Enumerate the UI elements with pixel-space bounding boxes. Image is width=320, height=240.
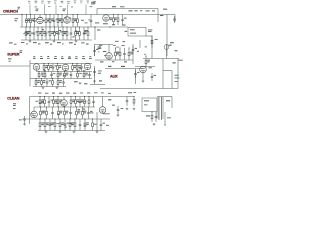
label band1 row1 extra 6 <box>25 19 28 22</box>
label V7 right b <box>112 104 115 107</box>
label band2 top 8 <box>89 57 92 60</box>
capacitor C39 <box>151 73 154 81</box>
ground band3 left <box>23 123 26 125</box>
resistor b3r3R6 <box>69 118 71 130</box>
wire wire V6A top <box>33 107 35 111</box>
label band1 bottom 5 <box>69 42 73 43</box>
label resistor b3r1aR4 <box>59 99 62 102</box>
label band2 row1 extra 4 <box>63 74 66 77</box>
label capacitor b1r2aC5 <box>48 30 50 33</box>
label PT a <box>128 91 132 94</box>
label send a <box>175 74 179 77</box>
label row2 right a <box>97 28 100 31</box>
label resistor b1r1bR4 <box>58 18 61 21</box>
label resistor b1r2aR3 <box>39 31 42 34</box>
resistor b2r2R6 <box>77 71 79 79</box>
label send c <box>175 80 178 83</box>
ground band2 b <box>56 87 59 89</box>
wire wire x135.5 drop <box>135 69 137 85</box>
label resistor b2r2R1 <box>41 73 44 76</box>
label resistor b3r2R3 <box>60 111 63 114</box>
label band1 bottom 0 <box>9 41 13 44</box>
label resistor b1r2aR6 <box>51 31 54 34</box>
node bus y27 x95 <box>94 26 95 27</box>
capacitor C67 <box>23 116 26 123</box>
resistor b3r1aR0 <box>39 96 41 107</box>
label band3 row2 extra 6 <box>57 113 60 116</box>
label band1 bottom2 3 <box>50 43 52 46</box>
label band3 top 2 <box>52 93 55 94</box>
label band1 row1 extra 8 <box>64 17 67 20</box>
label band1 row2 extra 3 <box>31 32 33 35</box>
capacitor b2r1aC2 <box>52 64 55 72</box>
resistor b1r1bR1 <box>49 14 51 27</box>
label band1 top value 6 <box>67 0 70 3</box>
label band1 top ref 3 <box>48 2 50 5</box>
wire wire x30 vertical band2 <box>29 60 31 87</box>
svg-text:CRUNCH: CRUNCH <box>3 10 18 14</box>
wire wire x178 drop <box>177 59 179 89</box>
resistor b1r2aR10 <box>66 26 68 40</box>
tube V1A triode <box>37 17 44 24</box>
label band1 row1 extra 7 <box>28 19 30 22</box>
label capacitor C38 <box>137 71 139 74</box>
capacitor C71 <box>100 119 103 131</box>
label rail up1 <box>112 6 116 7</box>
label spk <box>167 116 171 119</box>
label band2 top2 4 <box>61 55 63 58</box>
wire bus band1 y40 <box>21 39 92 41</box>
label resistor b2r2R4 <box>66 73 69 76</box>
wire wire x166b <box>166 44 168 59</box>
tube V7 output <box>99 107 106 114</box>
label band2 low a <box>74 81 78 82</box>
wire rail band3 y119 <box>22 118 110 120</box>
wire wire x95 drop <box>94 45 96 57</box>
label input B3 c <box>13 107 16 110</box>
label resistor b3r3R0 <box>41 122 44 125</box>
tube V4B triode <box>106 53 113 60</box>
ground band2 a <box>42 87 45 89</box>
label b2rt d1 <box>100 61 103 62</box>
wire bus band2 y71.5 <box>36 71 92 73</box>
label resistor b2r2R3 <box>59 73 62 76</box>
resistor b1r2aR12 <box>75 26 77 40</box>
label resistor b2r1aR3 <box>59 65 62 68</box>
label band2 top 7 <box>82 57 85 60</box>
resistor b1r2aR0 <box>25 26 27 40</box>
label band1 bottom2 4 <box>62 43 64 46</box>
wire rail band3 y107 <box>34 106 95 108</box>
label band1 row2 extra 9 <box>85 29 88 32</box>
wire bus band2 y78.5 <box>30 78 92 80</box>
ground band3 g3 <box>73 131 76 133</box>
label resistor b1r2aR12 <box>77 31 80 34</box>
label capacitor b3r3C2 <box>52 122 54 125</box>
capacitor b1r2aC5 <box>45 27 48 40</box>
label resistor b1toneR1 <box>114 17 117 20</box>
label resistor b3r2R7 <box>84 111 87 114</box>
label C5 <box>163 8 167 11</box>
resistor b3r2R6 <box>76 106 78 119</box>
capacitor b3r1bC5 <box>92 97 95 108</box>
label resistor b3r1bR3 <box>81 99 84 102</box>
wire wire x158 drop <box>157 9 159 23</box>
wire wire V5A down <box>142 73 144 80</box>
resistor b3r1bR4 <box>88 96 90 107</box>
capacitor b3r3C5 <box>64 119 67 131</box>
label resistor b3r1aR3 <box>55 99 58 102</box>
resistor b1r2aR4 <box>41 26 43 40</box>
label resistor b1r2aR9 <box>64 31 67 34</box>
ground band1 g1 <box>29 40 32 42</box>
wire wire x172 drop band3 <box>171 97 173 109</box>
resistor b3r3R9 <box>84 118 86 130</box>
resistor b1toneR0 <box>113 14 115 25</box>
label band1 row1 extra 4 <box>47 20 49 23</box>
label band3 row2 extra 4 <box>82 110 85 113</box>
label capacitor b2r1aC2 <box>55 64 57 67</box>
label capacitor b1r2aC8 <box>60 30 62 33</box>
wire input wire band2 y66 <box>0 65 30 67</box>
capacitor C5 bright <box>173 16 176 23</box>
label band2 row1 extra 2 <box>79 67 81 70</box>
label band3 row3 extra 6 <box>69 122 72 125</box>
label band1 bottom 4 <box>57 42 61 43</box>
label band3 row3 extra 4 <box>49 122 51 125</box>
resistor b1r2aR7 <box>54 26 56 40</box>
wire supply stub band1 2 <box>55 5 57 15</box>
label x178 a <box>179 59 183 62</box>
label input B2 <box>20 50 23 53</box>
label band2 top 2 <box>47 57 50 60</box>
label band2 right extra 0 <box>104 54 107 57</box>
label band3 row1 extra 1 <box>55 102 58 105</box>
label band1 top value 9 <box>87 0 89 2</box>
label band2 row1 extra 1 <box>83 69 86 72</box>
label rail up2 <box>120 5 125 8</box>
wire wire V2A grid <box>105 14 107 16</box>
label band3 row3 extra 3 <box>94 123 97 126</box>
wire wire box out y36 <box>146 35 152 37</box>
capacitor C36 <box>132 46 135 54</box>
resistor b1r2aR6 <box>49 26 51 40</box>
label V4B zone a <box>99 45 102 46</box>
tube V3A triode <box>33 64 40 71</box>
label band2 in a <box>8 57 12 60</box>
wire wire V1B anode <box>66 15 68 17</box>
label band1 row2 extra 0 <box>54 31 56 34</box>
wire bus band1 y27 <box>20 26 128 28</box>
label resistor b3r1bR1 <box>77 99 80 102</box>
capacitor b2r3C2 <box>46 79 49 87</box>
capacitor b1r1cC2 <box>90 15 93 28</box>
label capacitor C36 <box>135 47 137 50</box>
label VR1 <box>170 42 174 43</box>
label resistor b2r3R1 <box>43 80 46 83</box>
capacitor C74 mid <box>117 106 120 114</box>
label band1 top value 10 <box>93 0 96 3</box>
label resistor b1r1aR0 <box>28 18 31 21</box>
capacitor C34 <box>93 46 96 56</box>
label capacitor b1r2aC2 <box>36 30 38 33</box>
label x22 r2 <box>15 19 17 22</box>
label V4B zone b <box>99 48 101 49</box>
label band1 top ref 7 <box>74 1 76 4</box>
label band1 bottom 2 <box>33 42 37 43</box>
label band1 row1 extra 3 <box>40 16 43 19</box>
label out rail <box>103 112 110 115</box>
label stub 0 <box>35 5 38 8</box>
label resistor b3r2R1 <box>43 111 46 114</box>
label resistor b2r1bR0 <box>74 65 77 68</box>
capacitor b3r2C2 <box>51 107 54 119</box>
label band3 row2 extra 7 <box>83 108 85 111</box>
label band1 bottom2 0 <box>14 43 16 46</box>
label band2 top 3 <box>54 57 57 60</box>
capacitor C38 <box>134 70 137 78</box>
label capacitor C34 <box>96 48 98 51</box>
ground FX <box>93 80 96 82</box>
resistor b3r1bR3 <box>84 96 86 107</box>
label resistor b1r1bR1 <box>51 18 54 21</box>
label resistor b2r1aR1 <box>50 65 53 68</box>
capacitor b2r3C5 <box>62 79 65 87</box>
label band3 top 10 <box>108 92 111 95</box>
label capacitor b1r1aC2 <box>36 18 38 21</box>
label resistor b3r3R7 <box>71 122 74 125</box>
node spk <box>164 124 165 125</box>
capacitor b1r2aC2 <box>33 27 36 40</box>
label band1 top ref 10 <box>93 2 95 5</box>
resistor b3r2R4 <box>64 106 66 119</box>
label RL1 in2 <box>130 32 136 35</box>
wire bus band2 right y66 <box>135 66 155 68</box>
label band1 bottom2 1 <box>26 43 28 46</box>
label resistor b2r3R4 <box>59 80 62 83</box>
wire wire x175 drop <box>174 15 176 23</box>
resistor b1r1bR4 <box>61 14 63 27</box>
resistor b1r2aR9 <box>62 26 64 40</box>
ground R77 <box>133 108 136 110</box>
resistor b1toneR1 <box>117 14 119 25</box>
wire wire V7 top <box>102 97 104 107</box>
label row2 right b <box>112 24 115 25</box>
wire wire x133 drop <box>132 44 134 64</box>
resistor b1r2aR15 <box>87 26 89 40</box>
label top right B+ <box>91 2 95 5</box>
resistor b2rtR0 <box>115 47 117 60</box>
label band2 top2 2 <box>47 56 49 57</box>
capacitor b3r2C8 <box>87 107 90 119</box>
label V4B zone c <box>103 51 106 52</box>
wire wire junction x22 <box>21 15 23 28</box>
resistor b1r1bR3 <box>57 14 59 27</box>
label stub 3 <box>71 6 73 9</box>
label resistor b3r3R9 <box>86 122 89 125</box>
label band1 row1 extra 1 <box>85 22 88 25</box>
label band2 top2 1 <box>40 55 42 58</box>
svg-text:CLEAN: CLEAN <box>7 96 19 100</box>
label band2 top 0 <box>33 57 36 60</box>
label out b <box>106 124 109 127</box>
capacitor b1r1bC2 <box>53 15 56 28</box>
wire bus band2 y63.5 <box>30 63 92 65</box>
wire bus band2 y86.5 <box>33 86 66 88</box>
label band1 top value 4 <box>54 0 57 2</box>
resistor b3r2R3 <box>58 106 60 119</box>
wire wire x97 drop <box>96 9 98 15</box>
wire wire tall x152 <box>151 36 153 59</box>
wire rail FX bottom y88.5 <box>100 88 178 90</box>
label band2 row1 extra 0 <box>77 70 80 71</box>
wire HT rail band1 right y8.5 <box>97 8 158 10</box>
label band1 row1 extra 9 <box>42 19 45 22</box>
label band1 row2 extra 6 <box>73 36 75 37</box>
tube V1B triode <box>64 17 71 24</box>
label band3 row3 extra 5 <box>64 123 67 126</box>
label band1 bottom2 6 <box>86 44 89 45</box>
resistor b3r1bR1 <box>75 96 77 107</box>
wire rail FX y68.5 <box>105 68 143 70</box>
label band3 top 6 <box>80 92 83 95</box>
label band2 top 4 <box>61 57 64 60</box>
label band3 top 7 <box>87 92 90 95</box>
wire rail band3 top y96.5 <box>30 96 135 98</box>
label FX a <box>98 70 102 73</box>
label band3 top 9 <box>101 91 104 94</box>
node bus y27 x110 <box>109 26 110 27</box>
wire supply stub band1 3 <box>67 5 69 15</box>
transformer T1 <box>157 97 165 120</box>
label FX rail 1 <box>108 66 111 67</box>
label band3 row3 extra 7 <box>57 122 59 125</box>
label band2 right extra 5 <box>145 46 147 49</box>
label resistor b1r2aR1 <box>26 31 29 34</box>
capacitor C37 <box>93 68 96 76</box>
wire wire band3 right top <box>157 96 172 98</box>
label resistor b1r2aR7 <box>56 31 59 34</box>
label b2rt d2 <box>112 60 114 63</box>
wire supply stub band1 4 <box>85 5 87 15</box>
label C74 <box>121 107 124 110</box>
wire main bus band1 y14.5 <box>0 14 175 16</box>
label resistor b3r3R6 <box>71 122 74 125</box>
capacitor b3r2C5 <box>69 107 72 119</box>
capacitor b2r2C2 <box>50 72 53 79</box>
label resistor b3r1bR0 <box>72 99 75 102</box>
label band3 row3 extra 1 <box>46 122 48 125</box>
wire supply stub band1 0 <box>29 5 31 15</box>
resistor b3r2R7 <box>82 106 84 119</box>
label band2 right extra 3 <box>98 51 99 54</box>
wire wire x163 drop <box>162 59 164 89</box>
label band2 low b <box>84 82 87 85</box>
wire wire x29 vertical band3 <box>29 97 31 125</box>
label band2 top 1 <box>40 57 43 60</box>
label band2 in b <box>9 60 11 63</box>
resistor b2r2R3 <box>57 71 59 79</box>
capacitor b3r1aC2 <box>48 97 51 108</box>
label V1A <box>36 9 39 12</box>
label band1 row2 extra 1 <box>83 32 85 35</box>
label band3 row3 extra 0 <box>65 126 67 129</box>
label R78 <box>146 115 150 116</box>
label band1 bottom 6 <box>81 41 85 44</box>
ground band3 g2 <box>59 131 62 133</box>
label band1 top value 0 <box>28 0 30 3</box>
resistor b3r1aR1 <box>44 96 46 107</box>
label resistor b2r1aR0 <box>45 65 48 68</box>
resistor b2rtR3 <box>128 47 130 60</box>
tube V6A triode <box>31 111 38 118</box>
label capacitor b2r3C2 <box>49 79 51 82</box>
label resistor b3r2R4 <box>66 111 69 114</box>
label band2 top2 6 <box>75 55 77 58</box>
resistor b2r3R3 <box>52 78 54 87</box>
label R50 <box>155 38 158 41</box>
wire wire V4A top <box>87 62 89 64</box>
resistor b1r1cR0 <box>72 14 74 27</box>
label resistor b1r2aR15 <box>84 31 87 34</box>
label band3 row1 extra 7 <box>39 102 42 105</box>
label band1 top value 8 <box>80 0 83 2</box>
resistor b2r3R0 <box>35 78 37 87</box>
label resistor b1toneR0 <box>110 17 113 20</box>
resistor b1r1cR1 <box>77 14 79 27</box>
wire bus band2 right y60 <box>95 59 133 61</box>
label x158 <box>160 14 163 17</box>
label band3 row2 extra 1 <box>31 112 34 115</box>
label V1B <box>63 9 66 12</box>
label band3 row1 extra 6 <box>79 101 81 104</box>
label capacitor C39 <box>154 74 156 77</box>
resistor b2r1aR1 <box>48 63 50 72</box>
label band2 row1 extra 7 <box>42 75 44 78</box>
label b1 gapmark <box>81 19 84 22</box>
label D1 <box>144 100 149 101</box>
label band2 top 6 <box>75 57 78 60</box>
label band1 top ref 4 <box>54 2 56 5</box>
label C67 <box>19 118 22 121</box>
label band1 row2 extra 7 <box>42 28 44 31</box>
label band1 top value 3 <box>48 0 51 3</box>
ground out <box>96 131 99 133</box>
label rail text5 <box>152 9 155 12</box>
wire rail band3 bottom y130.5 <box>38 130 105 132</box>
capacitor b2r2C5 <box>70 72 73 79</box>
label resistor b3r3R1 <box>46 122 49 125</box>
label band3 top 1 <box>45 92 48 95</box>
wire rail FX stub y84.5 <box>90 84 105 86</box>
capacitor b1r2aC8 <box>57 27 60 40</box>
label tone b <box>103 22 108 25</box>
label b2rt d3 <box>124 60 127 63</box>
label band1 top value 1 <box>35 0 38 3</box>
wire wire V1A anode <box>39 15 41 18</box>
relay box RL1 <box>128 28 146 37</box>
label resistor b2rtR0 <box>117 52 120 55</box>
label x178 b <box>173 62 176 63</box>
label band1 row2 extra 2 <box>23 32 24 35</box>
label D1 b <box>144 103 148 106</box>
label band2 top 5 <box>68 58 71 59</box>
label b2rt u1 <box>113 44 116 47</box>
resistor R76 <box>92 118 94 130</box>
capacitor b3r3C2 <box>49 119 52 131</box>
label band2 right extra 1 <box>137 50 139 53</box>
wire wire band1 right low y44.5 <box>94 44 113 46</box>
